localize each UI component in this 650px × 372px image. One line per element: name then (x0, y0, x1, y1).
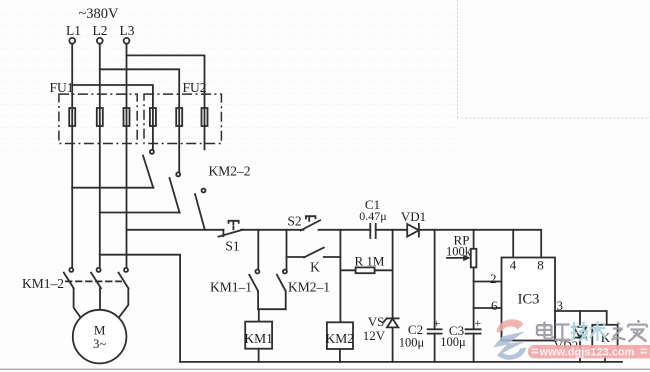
svg-text:100μ: 100μ (399, 336, 425, 350)
scan bottom page edge (0, 368, 650, 370)
relay contact K normally open (287, 248, 341, 258)
svg-text:2: 2 (490, 271, 497, 286)
svg-text:M: M (94, 323, 106, 338)
wire branch L1 to FU2 fuse1 (72, 85, 153, 149)
relay coil K (592, 325, 617, 352)
zener VS (384, 318, 399, 362)
contact KM1-2 pole2 (91, 268, 101, 310)
svg-text:L2: L2 (93, 23, 108, 38)
svg-text:+: + (474, 316, 481, 330)
svg-text:www.dgjs123.com: www.dgjs123.com (539, 347, 635, 359)
faint scan halftone rows (0, 0, 650, 150)
watermark red banner (528, 345, 650, 359)
coil KM2 (327, 322, 353, 349)
fuse FU2-a (150, 108, 156, 126)
svg-text:VS: VS (368, 314, 385, 329)
svg-text:100k: 100k (446, 244, 472, 258)
wire coil K to bottom rail (604, 351, 606, 362)
svg-text:KM2–2: KM2–2 (208, 164, 250, 179)
wire branch L2 to FU2 fuse2 (100, 69, 179, 172)
svg-text:4: 4 (510, 258, 517, 273)
fuse FU2-c (202, 108, 208, 126)
svg-text:0.47μ: 0.47μ (359, 209, 386, 223)
svg-text:12V: 12V (363, 328, 386, 343)
svg-text:L3: L3 (120, 23, 135, 38)
wire VD1 to IC pins 4 8 (419, 230, 541, 258)
svg-text:S2: S2 (287, 214, 301, 229)
pushbutton S1 normally closed (219, 221, 243, 237)
fuse FU1-c (124, 108, 130, 126)
capacitor C1 (370, 224, 375, 238)
motor M (73, 310, 127, 364)
contact KM1-2 pole1 (64, 268, 81, 318)
svg-text:+: + (433, 316, 440, 330)
fuse block FU2 dash-dot box (144, 94, 221, 143)
pushbutton S2 normally open (301, 216, 321, 230)
svg-text:IC3: IC3 (518, 292, 540, 308)
diode VD1 (407, 224, 419, 237)
wire rail S1 to S2 (241, 229, 304, 231)
wire branch KM2 coil down from rail (339, 230, 341, 322)
coil KM1 (245, 322, 272, 349)
svg-text:KM1–2: KM1–2 (22, 276, 64, 291)
contact KM2-2 pole2 (170, 172, 181, 212)
wire rail S2 to C1 (319, 229, 371, 231)
wire phase L3 vertical (126, 44, 128, 268)
svg-text:8: 8 (537, 258, 544, 273)
wire coil KM1 to bottom rail (258, 349, 260, 362)
scan crop border top-right horizontal (458, 117, 650, 119)
wire C1 to VD1 (376, 229, 408, 231)
svg-text:L1: L1 (66, 23, 81, 38)
watermark text dian gong ji shu zhi jia (537, 322, 571, 340)
wire pin6 (474, 307, 502, 309)
svg-text:R 1M: R 1M (355, 254, 385, 269)
wire control return L2 to bottom rail (100, 255, 180, 362)
diode VD2 (573, 327, 586, 362)
wire VD2 branch top (579, 311, 581, 327)
potentiometer RP (447, 230, 476, 329)
wire phase L1 vertical (71, 44, 73, 268)
svg-text:KM1–1: KM1–1 (210, 280, 252, 295)
svg-text:K: K (310, 260, 320, 275)
wire coil KM2 to bottom rail (339, 349, 341, 362)
fuse FU1-a (69, 108, 75, 126)
terminal L1 (69, 38, 75, 44)
contact KM1-1 (249, 270, 259, 310)
wire down to coil KM1 (258, 309, 260, 321)
op-amp IC3 box (502, 258, 556, 341)
watermark logo swirl (493, 319, 526, 359)
contact KM2-2 pole3 (195, 189, 206, 230)
contact KM2-1 (277, 270, 287, 310)
wire C2 branch (434, 230, 436, 329)
svg-text:6: 6 (491, 298, 498, 313)
svg-text:3~: 3~ (93, 337, 106, 351)
contact KM1-2 pole3 (119, 268, 129, 318)
scan crop border top-right vertical (457, 0, 459, 118)
wire KM2-2 pole2 to L2 (100, 212, 180, 214)
svg-text:VD1: VD1 (401, 209, 426, 224)
mechanical link KM1-2 dashed (66, 280, 121, 282)
wire zener branch (392, 230, 394, 319)
terminal L2 (97, 38, 103, 44)
wire control rail L3 to S1 (127, 229, 224, 231)
wire branch KM1-1 down from rail (257, 230, 259, 269)
wire KM2-2 pole1 to L1 (72, 187, 153, 189)
svg-text:KM1: KM1 (244, 331, 273, 346)
wire branch L3 to FU2 fuse3 (127, 55, 205, 149)
fuse FU2-b (176, 108, 182, 126)
wire phase L2 vertical (99, 44, 101, 268)
terminal L3 (124, 38, 130, 44)
svg-text:KM2–1: KM2–1 (288, 280, 330, 295)
svg-text:KM2: KM2 (326, 331, 355, 346)
svg-text:S1: S1 (225, 239, 239, 254)
wire bottom rail (180, 361, 622, 363)
fuse block FU1 dash-dot box (59, 94, 137, 143)
svg-text:FU1: FU1 (49, 80, 73, 95)
wire pin4 (512, 230, 514, 258)
wire pin2 (474, 281, 502, 283)
svg-text:100μ: 100μ (440, 335, 466, 349)
wire joining KM1-1 and KM2-1 (258, 308, 286, 310)
contact KM2-2 pole1 (143, 150, 154, 188)
resistor R 1M (340, 267, 392, 273)
fuse FU1-b (97, 108, 103, 126)
svg-text:FU2: FU2 (182, 80, 206, 95)
capacitor C2 (428, 329, 442, 362)
svg-text:~380V: ~380V (78, 6, 119, 22)
wire branch KM2-1 down from rail (286, 230, 288, 269)
capacitor C3 (466, 329, 481, 362)
wire pin3 to relay K (555, 311, 607, 325)
